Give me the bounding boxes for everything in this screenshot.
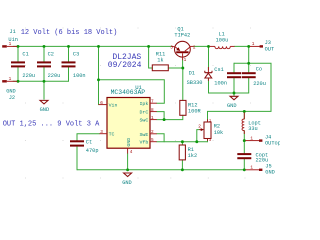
- wire: C3 bottom lead: [68, 67, 70, 81]
- node: feedback bus/R1 junction: [181, 140, 184, 143]
- svg-text:Ipk: Ipk: [140, 101, 149, 107]
- node: collector/D1/L1 junction: [207, 45, 210, 48]
- svg-text:MC34063AP: MC34063AP: [111, 89, 146, 96]
- resistor R12: [180, 100, 186, 115]
- svg-text:4: 4: [130, 150, 133, 155]
- wire: C2 top lead: [43, 46, 45, 61]
- node: rail/C1 junction: [17, 45, 20, 48]
- capacitor C3: [62, 61, 76, 67]
- wire: Copt bottom lead to GND rail: [243, 159, 245, 170]
- svg-text:Uin: Uin: [8, 37, 18, 43]
- wire: Ipk tie from Vin riser to U1 pin 7: [99, 80, 165, 103]
- node: output/J3 junction: [247, 45, 250, 48]
- svg-text:GND: GND: [265, 170, 275, 176]
- wire: main GND rail: [77, 169, 244, 171]
- wire: U1 pin 2 SwE down to feedback bus: [157, 134, 164, 142]
- svg-text:GND: GND: [227, 103, 237, 109]
- node: cap GND bus/Cs1 junction: [233, 92, 236, 95]
- svg-text:220u: 220u: [48, 73, 61, 79]
- svg-text:6: 6: [100, 101, 103, 106]
- wire: C1 bottom lead: [17, 67, 19, 81]
- svg-text:3: 3: [100, 130, 103, 135]
- svg-text:220u: 220u: [253, 81, 266, 87]
- svg-text:1: 1: [250, 136, 253, 141]
- ground symbol below Cs1: [230, 96, 238, 100]
- wire: Vin riser from rail to U1 pin 6: [98, 46, 100, 104]
- node: GND rail/R1 junction: [181, 168, 184, 171]
- wire: Cs1/Co top bus: [208, 63, 271, 111]
- svg-text:1: 1: [250, 166, 253, 171]
- wire: U1 pin 8 DrC to SwC bus: [157, 112, 164, 120]
- capacitor C2: [37, 61, 51, 67]
- wire: L1 right lead to output node: [234, 45, 248, 47]
- node: Q1 base/R11/R12 junction: [181, 67, 184, 70]
- wire: Ct bottom lead to GND rail: [76, 147, 78, 170]
- svg-text:2: 2: [151, 130, 154, 135]
- node: GND rail/U1 pin4 junction: [126, 168, 129, 171]
- wire: Cs1 top lead: [233, 63, 235, 72]
- svg-text:2: 2: [193, 46, 196, 51]
- wire: GND drop below C2: [43, 81, 45, 99]
- IC U1 MC34063AP: [99, 98, 157, 154]
- ground symbol below C2: [40, 100, 48, 104]
- inductor Lopt: [242, 113, 244, 135]
- node: rail/C3 junction: [67, 45, 70, 48]
- svg-text:Ct: Ct: [86, 140, 92, 146]
- svg-text:09/2024: 09/2024: [108, 61, 142, 70]
- svg-text:R2: R2: [214, 124, 220, 130]
- svg-text:D1: D1: [189, 70, 195, 76]
- node: Vin/Ipk tie junction: [97, 78, 100, 81]
- svg-text:GND: GND: [6, 88, 16, 94]
- wire: C3 top lead: [68, 46, 70, 61]
- wire: Cs1 bottom lead: [233, 78, 235, 93]
- connector J3 (OUT): [250, 45, 263, 47]
- wire: R11 right lead to Q1 base node: [168, 67, 183, 69]
- svg-text:OUT 1,25 ... 9 Volt 3 A: OUT 1,25 ... 9 Volt 3 A: [3, 121, 100, 129]
- wire: U1 TC pin 3 to Ct top: [77, 134, 100, 141]
- wire: stub to GND symbol under Cs1: [233, 93, 235, 96]
- capacitor Cs1: [227, 72, 241, 78]
- node: Lopt/J4/Copt junction: [243, 139, 246, 142]
- connector J4 (OUTopt): [245, 139, 262, 141]
- svg-text:SB330: SB330: [187, 80, 203, 86]
- schottky diode D1: [205, 67, 212, 81]
- svg-text:OUT: OUT: [265, 46, 275, 52]
- wire: R1 top lead: [181, 142, 183, 145]
- svg-text:TIP42: TIP42: [174, 32, 190, 38]
- svg-text:J1: J1: [9, 29, 15, 35]
- svg-text:12 Volt (6 bis 18 Volt): 12 Volt (6 bis 18 Volt): [21, 29, 118, 37]
- wire: Q1 base node down to R12 top: [182, 68, 184, 100]
- svg-text:470p: 470p: [86, 148, 99, 154]
- svg-text:R11: R11: [156, 51, 166, 57]
- svg-text:R1: R1: [188, 147, 194, 153]
- svg-text:GND: GND: [40, 107, 50, 113]
- wire: R2 wiper to feedback bus: [197, 130, 199, 142]
- wire: U1 GND pin 4 to GND rail: [127, 154, 129, 170]
- wire: Lopt top lead from sense wire: [243, 111, 245, 119]
- node: GND rail/C1 junction: [17, 80, 20, 83]
- svg-text:J2: J2: [9, 95, 15, 101]
- wire: Q1 collector to D1/L1 node: [194, 45, 209, 47]
- wire: D1 anode lead down to cap GND bus: [209, 78, 249, 93]
- wire: D1 cathode lead from collector node: [208, 46, 210, 69]
- wire: R2 top lead to output sense wire: [207, 111, 209, 122]
- svg-text:TC: TC: [109, 132, 115, 138]
- capacitor C1: [11, 61, 25, 67]
- node: rail/Vin riser junction: [97, 45, 100, 48]
- wire: U1 pin 1 SwC to R12 bottom: [157, 115, 183, 119]
- svg-text:7: 7: [151, 100, 154, 105]
- node: rail/R11 junction: [147, 45, 150, 48]
- wire: Co top lead: [248, 63, 250, 72]
- svg-text:100u: 100u: [216, 38, 229, 44]
- svg-text:1: 1: [151, 116, 154, 121]
- capacitor Ct: [70, 140, 84, 146]
- svg-text:8: 8: [151, 108, 154, 113]
- wire: C2 bottom lead: [43, 67, 45, 81]
- svg-text:GND: GND: [122, 180, 132, 186]
- wire: Lopt bottom lead to J4 node: [243, 131, 245, 141]
- node: DrC/SwC junction: [163, 118, 166, 121]
- svg-text:DrC: DrC: [140, 110, 149, 116]
- svg-text:100R: 100R: [188, 109, 202, 115]
- resistor R1: [179, 145, 185, 160]
- node: rail/C2 junction: [43, 45, 46, 48]
- svg-text:1: 1: [252, 42, 255, 47]
- svg-text:Vfb: Vfb: [140, 140, 149, 146]
- svg-text:OUTopt: OUTopt: [265, 140, 280, 146]
- svg-text:100n: 100n: [214, 80, 227, 86]
- resistor R11: [152, 65, 168, 71]
- wire: Q1 base lead: [182, 60, 184, 68]
- wire: output node down to Cs1/Co bus: [248, 46, 250, 63]
- svg-text:5: 5: [151, 138, 154, 143]
- node: feedback bus/wiper junction: [195, 140, 198, 143]
- node: GND rail/Copt/J5 junction: [243, 168, 246, 171]
- wire: C1 top lead: [17, 46, 19, 61]
- svg-text:Cs1: Cs1: [214, 67, 224, 73]
- svg-text:SwE: SwE: [140, 132, 149, 138]
- wire: R1 bottom lead to GND rail: [181, 160, 183, 170]
- svg-text:Co: Co: [256, 66, 262, 72]
- wire: R2 bottom lead: [207, 139, 209, 142]
- capacitor Co: [242, 72, 256, 78]
- svg-text:GND: GND: [126, 138, 132, 147]
- potentiometer R2: [199, 119, 211, 141]
- wire: input GND rail J2 to C3: [13, 80, 69, 82]
- wire: J4 node down to Copt top: [243, 141, 245, 154]
- svg-text:10k: 10k: [214, 130, 224, 136]
- connector J2 (GND in): [2, 80, 17, 82]
- connector J1 (Uin): [2, 45, 17, 47]
- node: GND rail/C2 junction: [43, 80, 46, 83]
- ground symbol below U1: [124, 173, 132, 177]
- capacitor Copt: [237, 153, 251, 159]
- svg-text:3: 3: [170, 46, 173, 51]
- svg-text:J3: J3: [265, 40, 271, 46]
- inductor L1: [210, 46, 235, 48]
- wire: U1 pin 5 Vfb feedback bus: [157, 141, 208, 143]
- node: sense wire/Lopt junction: [243, 110, 246, 113]
- wire: rail to R11 left lead: [149, 46, 153, 68]
- svg-text:100n: 100n: [73, 73, 86, 79]
- svg-text:C1: C1: [22, 52, 28, 58]
- svg-text:C2: C2: [48, 52, 54, 58]
- svg-text:33u: 33u: [248, 126, 258, 132]
- wire: +12V top rail from J1 to Q1 emitter: [13, 45, 172, 47]
- wire: Co bottom lead: [248, 78, 250, 93]
- node: output bus/Co junction: [247, 62, 250, 65]
- svg-text:1: 1: [9, 77, 12, 82]
- svg-text:1: 1: [184, 58, 187, 63]
- svg-text:C3: C3: [73, 52, 79, 58]
- transistor Q1 TIP42 (PNP): [171, 41, 193, 60]
- svg-text:1k: 1k: [157, 58, 163, 64]
- svg-text:R12: R12: [188, 102, 198, 108]
- svg-text:220u: 220u: [22, 73, 35, 79]
- svg-text:SwC: SwC: [140, 118, 149, 124]
- svg-text:1k2: 1k2: [188, 153, 198, 159]
- svg-text:Vin: Vin: [109, 103, 118, 109]
- svg-text:2: 2: [198, 125, 201, 130]
- connector J5 (GND out): [245, 169, 262, 171]
